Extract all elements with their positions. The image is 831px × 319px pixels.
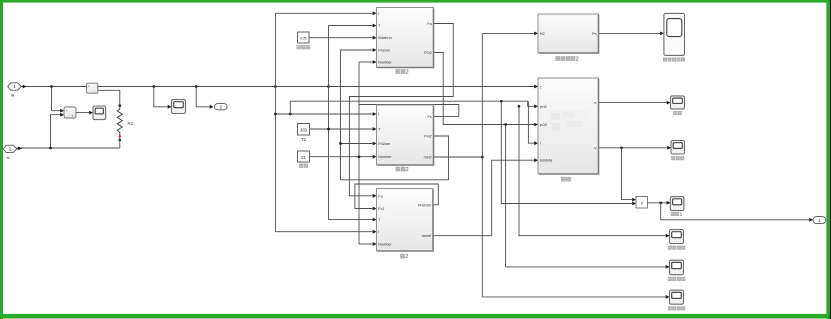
scope stack voltage bbox=[671, 141, 685, 155]
subsystem U4 hydrogen resistance (氢气内阻2) bbox=[538, 14, 599, 53]
product block X1 bbox=[636, 197, 648, 209]
resistor bottom terminal dot bbox=[119, 139, 122, 142]
svg-text:Fh2om: Fh2om bbox=[378, 142, 390, 146]
svg-text:PO2: PO2 bbox=[424, 51, 432, 55]
wire main T/I bus horizontal bbox=[19, 86, 538, 88]
svg-text:21: 21 bbox=[301, 155, 306, 160]
svg-text:1: 1 bbox=[13, 84, 16, 89]
junction dot pH2 line bbox=[500, 100, 503, 103]
wire Fa output to membrane Fa bbox=[349, 24, 453, 196]
junction dot product output bbox=[659, 201, 662, 204]
inport 1 bbox=[8, 83, 22, 90]
svg-text:0.05: 0.05 bbox=[300, 36, 307, 40]
wire I bus to anode in1 bbox=[275, 12, 372, 14]
wire resistor bottom to return bbox=[119, 140, 121, 148]
junction dot mH2 bus bbox=[481, 156, 484, 159]
outport 1 bbox=[813, 217, 826, 224]
subsystem U3 membrane (膜2) bbox=[377, 189, 434, 252]
junction dots on I bus bbox=[274, 113, 277, 116]
current sensor block bbox=[87, 83, 98, 93]
cathode port labels bbox=[378, 113, 432, 160]
svg-text:2: 2 bbox=[576, 57, 579, 63]
wire I bus to cathode in1 bbox=[275, 113, 372, 115]
scope mid-left bbox=[172, 100, 186, 114]
wire Fh2om bus to cathode bbox=[341, 143, 373, 145]
scope anode pressure bbox=[670, 230, 684, 244]
wire T bus to membrane T bbox=[329, 219, 373, 221]
inport 2 output stub bbox=[17, 147, 22, 150]
svg-text:T2: T2 bbox=[301, 137, 307, 142]
resistor R2 red port marker bbox=[119, 135, 121, 137]
svg-text:FH2Om: FH2Om bbox=[418, 203, 431, 207]
svg-text:I: I bbox=[378, 113, 379, 117]
junction dot pO2 line bbox=[504, 123, 507, 126]
wire mH2 output bbox=[434, 156, 483, 158]
junction dots on main wire bbox=[50, 85, 53, 88]
svg-text:+: + bbox=[65, 109, 67, 113]
label membrane block bbox=[400, 254, 408, 260]
wire Ianmf output to lambda bbox=[434, 160, 535, 236]
wire Fs output loop bbox=[359, 105, 459, 117]
wire H2 flow to flow scope bbox=[482, 296, 665, 298]
wire PH2 feedback to Fh2om bus bbox=[341, 50, 449, 180]
label cathode block bbox=[396, 167, 409, 173]
wire T bus vertical bbox=[328, 26, 330, 220]
svg-text:Water.in: Water.in bbox=[378, 36, 392, 40]
svg-text:pH2: pH2 bbox=[540, 105, 547, 109]
wire from inport 2 bbox=[16, 147, 120, 149]
label hydrogen resistance block bbox=[556, 56, 579, 62]
svg-text:e: e bbox=[594, 101, 596, 105]
svg-text:pO2: pO2 bbox=[540, 123, 547, 127]
subsystem U1 anode (阳极2) bbox=[377, 8, 434, 68]
svg-text:2: 2 bbox=[9, 147, 12, 152]
svg-text:2: 2 bbox=[406, 167, 409, 173]
svg-text:mH2: mH2 bbox=[424, 156, 432, 160]
svg-text:Number: Number bbox=[378, 243, 392, 247]
junction dot T bus bbox=[327, 128, 330, 131]
junction dot Number bus bbox=[358, 155, 361, 158]
svg-text:1: 1 bbox=[680, 212, 683, 217]
svg-text:v: v bbox=[72, 113, 74, 117]
svg-text:Fh2om: Fh2om bbox=[378, 49, 390, 53]
wire constant 0.05 to Water.in bbox=[309, 37, 373, 39]
wire sensor to resistor top bbox=[98, 90, 120, 106]
wire product to power scope bbox=[648, 202, 667, 204]
svg-text:Number: Number bbox=[378, 155, 392, 159]
inport 1 output stub bbox=[21, 86, 26, 88]
anode port labels bbox=[378, 12, 432, 65]
svg-text:R2: R2 bbox=[128, 121, 134, 126]
inport 1 tiny sublabel bbox=[11, 94, 14, 97]
constant 383 (T2) bbox=[298, 124, 310, 136]
wire I to product input 2 bbox=[501, 101, 632, 203]
wire branch to outport 2 bbox=[196, 87, 209, 107]
outport 2 bbox=[215, 104, 228, 110]
wire e output to efficiency scope bbox=[599, 102, 667, 104]
scope cathode pressure bbox=[670, 260, 684, 275]
voltage block port labels bbox=[540, 86, 597, 163]
voltage sensor block bbox=[64, 107, 76, 118]
svg-text:Ps: Ps bbox=[592, 32, 597, 36]
wire pH2 to anode-pressure scope bbox=[519, 106, 666, 235]
svg-text:Ianmf: Ianmf bbox=[422, 234, 432, 238]
wire H2 flow bus vertical bbox=[481, 33, 483, 297]
svg-text:Fs: Fs bbox=[427, 115, 431, 119]
hydrogen tank pressure display bbox=[664, 13, 685, 55]
svg-text:Fc1: Fc1 bbox=[378, 207, 384, 211]
wire Number bus to membrane Number bbox=[359, 243, 373, 245]
subsystem U2 cathode (阴极2) bbox=[377, 105, 434, 165]
wire constant 383 to cathode T bbox=[310, 128, 373, 130]
wire to voltage-sensor input 2 bbox=[51, 115, 61, 148]
wire voltage sensor to scope1 bbox=[76, 112, 90, 114]
junction dot anode pressure feed bbox=[518, 105, 521, 108]
wire FH2Om output to membrane Fc1 bbox=[355, 184, 438, 209]
label power scope bbox=[671, 212, 683, 217]
inport 2 bbox=[3, 145, 17, 152]
inport 2 tiny sublabel bbox=[7, 157, 10, 159]
junction dot Fh2om bus bbox=[339, 142, 342, 145]
membrane port labels bbox=[378, 194, 432, 246]
svg-text:2: 2 bbox=[406, 70, 409, 76]
svg-text:-: - bbox=[94, 89, 95, 93]
wire pO2 to cathode-pressure scope bbox=[506, 125, 666, 267]
label hydrogen tank pressure bbox=[663, 58, 685, 62]
svg-text:H2: H2 bbox=[540, 32, 545, 36]
label voltage block bbox=[561, 177, 571, 182]
scope voltage-sensor display bbox=[93, 106, 106, 120]
svg-text:2: 2 bbox=[405, 254, 408, 260]
svg-text:I: I bbox=[378, 12, 379, 16]
label cell count constant bbox=[299, 164, 308, 168]
wire T bus to anode T bbox=[329, 25, 373, 27]
constant 0.05 (water feed) bbox=[298, 32, 310, 43]
scope efficiency bbox=[671, 96, 685, 109]
wire V output to stack-voltage scope bbox=[599, 147, 668, 149]
wire Number bus vertical bbox=[358, 62, 360, 244]
resistor R2 bbox=[117, 106, 122, 140]
svg-text:lambda: lambda bbox=[540, 159, 553, 163]
svg-text:+: + bbox=[88, 85, 90, 89]
constant 21 (cell count) bbox=[298, 151, 310, 162]
wire branch to scope2 bbox=[154, 87, 168, 107]
svg-text:383: 383 bbox=[300, 128, 308, 133]
scope power (功率1) bbox=[670, 197, 684, 211]
wire to voltage-block I input bbox=[528, 101, 534, 143]
svg-text:PH2: PH2 bbox=[424, 135, 431, 139]
resistor top terminal dot bbox=[119, 104, 122, 107]
junction dot on inport-2 wire bbox=[49, 147, 52, 150]
wire V to product input 1 bbox=[622, 148, 633, 200]
wire product output to outport 1 bbox=[661, 203, 809, 220]
wire PO2 output to pO2 bbox=[434, 53, 535, 125]
svg-text:I: I bbox=[378, 230, 379, 234]
voltage block faint equation image bbox=[547, 110, 587, 134]
svg-text:Number: Number bbox=[378, 61, 392, 65]
wire I bus to membrane I bbox=[275, 231, 372, 233]
wire gas-resistance output to tank display bbox=[599, 32, 661, 34]
scope hydrogen flow bbox=[670, 290, 684, 304]
svg-text:I: I bbox=[540, 142, 541, 146]
label anode block bbox=[396, 69, 409, 75]
wire H2 flow to resistance block bbox=[482, 32, 534, 34]
wire pH2 feed bbox=[290, 101, 534, 114]
wire to voltage-sensor input 1 bbox=[52, 87, 61, 111]
wire Number bus to anode Number bbox=[359, 61, 373, 63]
wire I bus vertical bbox=[274, 13, 276, 231]
subsystem U5 voltage (电压) bbox=[538, 78, 599, 174]
hydrogen resistance port labels bbox=[540, 32, 597, 36]
junction dot V output bbox=[620, 146, 623, 149]
wire constant 21 to cathode Number bbox=[310, 156, 373, 158]
label constant 0.05 bbox=[297, 45, 311, 49]
